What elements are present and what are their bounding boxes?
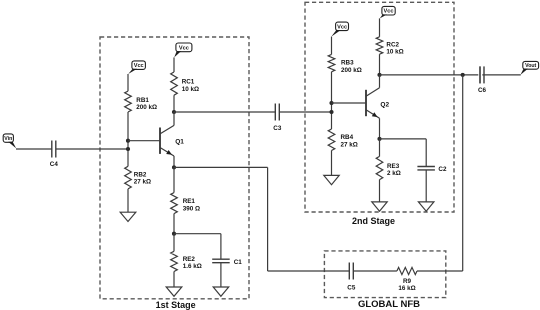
svg-text:RE1: RE1 bbox=[183, 198, 196, 205]
svg-text:16 kΩ: 16 kΩ bbox=[398, 285, 415, 292]
svg-text:2 kΩ: 2 kΩ bbox=[387, 170, 401, 177]
svg-text:Vcc: Vcc bbox=[337, 24, 347, 30]
svg-text:Q1: Q1 bbox=[175, 138, 184, 145]
svg-text:1st Stage: 1st Stage bbox=[156, 300, 196, 310]
svg-text:C1: C1 bbox=[234, 259, 243, 266]
svg-text:27 kΩ: 27 kΩ bbox=[341, 142, 358, 149]
svg-text:RE2: RE2 bbox=[183, 256, 196, 263]
svg-text:RC1: RC1 bbox=[182, 78, 195, 85]
svg-text:Vcc: Vcc bbox=[134, 63, 144, 69]
svg-text:Vin: Vin bbox=[4, 136, 12, 142]
svg-text:Vcc: Vcc bbox=[179, 45, 189, 51]
svg-text:10 kΩ: 10 kΩ bbox=[182, 86, 199, 93]
svg-text:RE3: RE3 bbox=[387, 163, 400, 170]
svg-text:RB3: RB3 bbox=[341, 59, 354, 66]
svg-text:200 kΩ: 200 kΩ bbox=[341, 67, 362, 74]
svg-text:C3: C3 bbox=[273, 125, 282, 132]
svg-text:390 Ω: 390 Ω bbox=[183, 206, 200, 213]
svg-text:Vcc: Vcc bbox=[384, 9, 394, 15]
svg-text:C2: C2 bbox=[438, 166, 447, 173]
svg-text:RB2: RB2 bbox=[134, 172, 147, 179]
svg-text:10 kΩ: 10 kΩ bbox=[386, 49, 403, 56]
svg-text:200 kΩ: 200 kΩ bbox=[136, 104, 157, 111]
svg-text:RC2: RC2 bbox=[386, 41, 399, 48]
svg-text:Vout: Vout bbox=[525, 63, 536, 69]
svg-text:C5: C5 bbox=[347, 284, 356, 291]
svg-text:Q2: Q2 bbox=[380, 101, 389, 108]
svg-text:27 kΩ: 27 kΩ bbox=[134, 179, 151, 186]
svg-text:C4: C4 bbox=[50, 161, 59, 168]
svg-text:2nd Stage: 2nd Stage bbox=[352, 216, 395, 226]
svg-text:C6: C6 bbox=[478, 87, 487, 94]
svg-text:1.6 kΩ: 1.6 kΩ bbox=[183, 263, 202, 270]
svg-text:R9: R9 bbox=[403, 278, 412, 285]
svg-text:GLOBAL NFB: GLOBAL NFB bbox=[358, 299, 420, 310]
svg-text:RB4: RB4 bbox=[341, 134, 354, 141]
